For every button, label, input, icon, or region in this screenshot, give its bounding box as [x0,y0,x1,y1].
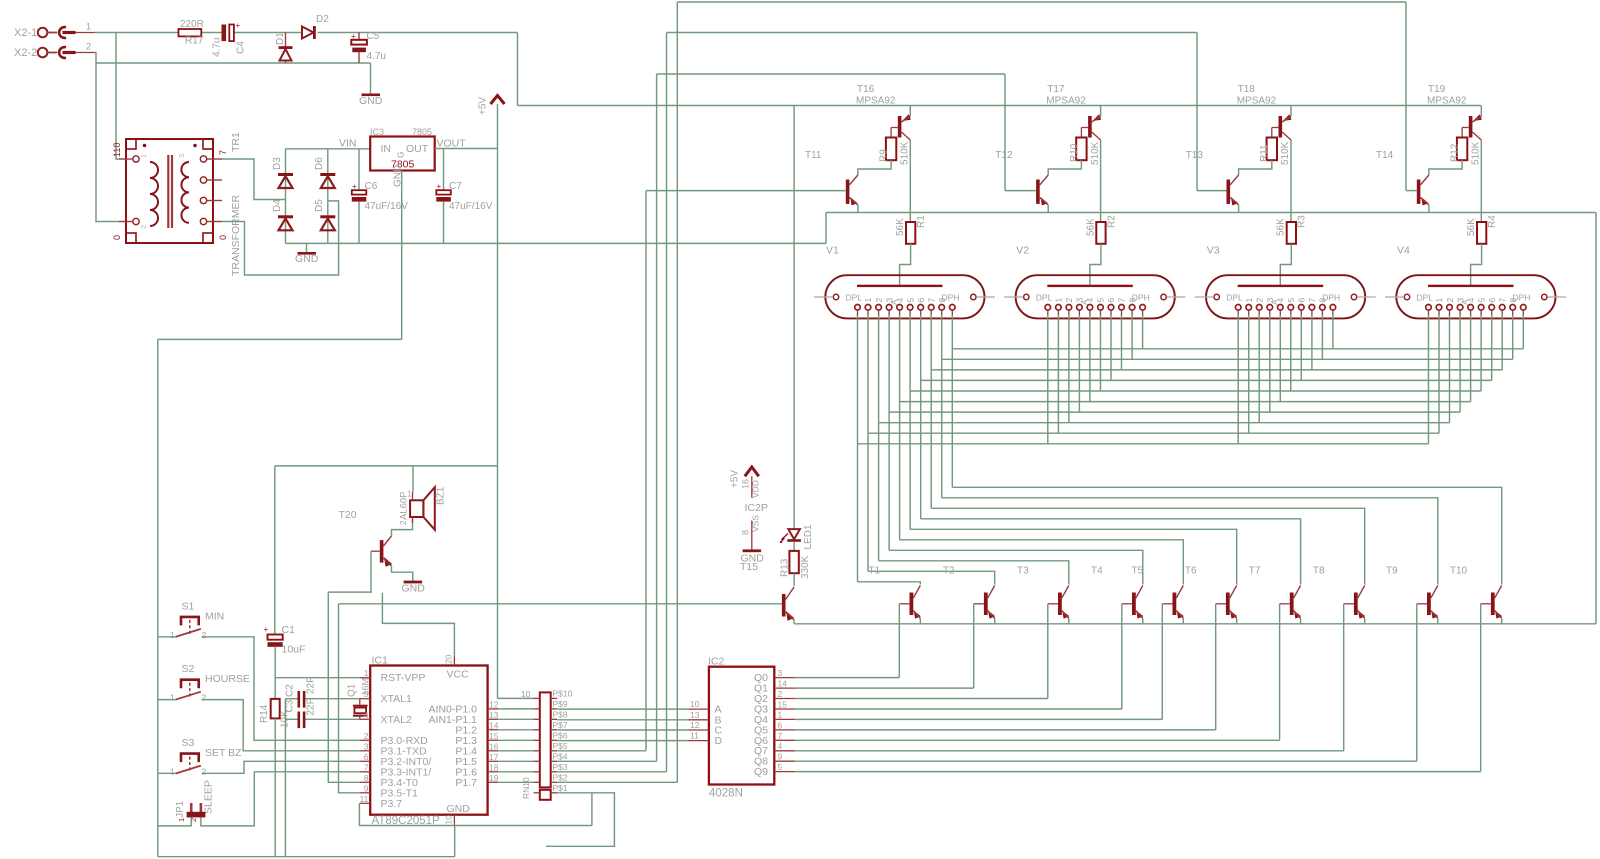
nixie V3 pin 0 stub [1237,310,1239,316]
wire V1 pin 1 column [867,315,869,571]
transistor T3 base bar [1058,593,1062,616]
jumper JP1 pin1 post [190,803,193,812]
resistor R14 [271,699,280,719]
wire C1 bottom to R14 [274,647,276,699]
crystal Q1 body [354,708,366,714]
svg-text:1: 1 [778,710,783,720]
wire cathode bus 5 [910,390,1481,392]
svg-text:2: 2 [139,225,148,229]
buzzer pin1 lead [412,492,414,500]
transistor T20 base bar [380,540,384,563]
transformer primary winding [150,162,158,226]
transformer right pin lead 0 [207,158,223,160]
wire cathode bus 8 [942,358,1513,360]
svg-text:D1: D1 [275,32,286,45]
svg-text:MPSA92: MPSA92 [1046,96,1086,107]
nixie V1 cathode pin 7 [928,305,934,311]
nixie tube V2 anode bar [1047,285,1133,287]
svg-text:1: 1 [177,818,186,822]
transistor T12 base bar [1036,180,1040,204]
nixie V4 right side pin [1542,294,1547,299]
svg-text:C4: C4 [236,41,247,54]
nixie V3 left side pin [1214,294,1219,299]
svg-text:1: 1 [1054,298,1064,303]
IC2 output Q5 stub [774,729,795,731]
transistor T9 emitter arrow [1431,611,1438,619]
svg-text:P$4: P$4 [553,751,568,761]
svg-text:MPSA92: MPSA92 [856,96,896,107]
diode D1 cathode bar [279,46,293,49]
wire T9 emitter to rail [1437,619,1439,624]
transistor T17 base bar [1088,116,1092,138]
nixie tube V2 envelope [1016,275,1175,318]
diode D1 anode stub [285,33,287,48]
svg-text:LED1: LED1 [803,524,814,549]
wire IC1 GND to P3.7 net [359,803,592,825]
wire S3 right route [202,761,360,773]
wire T4 emitter to rail [1142,619,1144,624]
svg-text:P$10: P$10 [553,688,573,698]
svg-text:Q1: Q1 [347,683,358,697]
transistor T10 emitter arrow [1495,611,1502,619]
svg-text:5: 5 [1096,298,1106,303]
IC2P VSS stem [751,521,753,550]
wire V2 pin 4 drop [1089,315,1091,402]
wire D2 to C5 node to corner [318,32,518,34]
svg-text:220R: 220R [180,19,204,30]
resistor network RN1 common box [540,790,551,800]
IC2 input C stub [688,729,709,731]
nixie V3 cathode pin 9 [1330,305,1336,311]
nixie V2 pin 5 stub [1100,310,1102,316]
capacitor C6 plate 1 [352,190,367,194]
svg-text:14: 14 [778,679,788,689]
capacitor C7 plate 1 [436,190,451,194]
svg-text:D6: D6 [314,157,325,170]
wire T16 emitter [909,106,911,117]
wire R4 to anode [1471,244,1482,286]
svg-text:R1: R1 [916,215,927,228]
buzzer pin2 lead [412,517,414,523]
wire T5 emitter to rail [1182,619,1184,624]
wire T14 base [1406,190,1417,192]
wire VCC route [382,593,454,656]
svg-text:SLEEP: SLEEP [203,780,215,814]
svg-text:C5: C5 [367,31,380,42]
svg-text:X2-2: X2-2 [14,47,37,59]
svg-text:P3.7: P3.7 [381,798,403,810]
diode D1 cathode stub [285,61,287,64]
svg-text:T17: T17 [1047,84,1065,95]
svg-text:2: 2 [399,520,408,525]
nixie V3 pin 5 stub [1290,310,1292,316]
wire X2-2 to transformer pin 2 [95,53,119,222]
wire P3.4 column [328,592,359,782]
svg-text:R2: R2 [1106,215,1117,228]
wire P1 row 14 to RN1 [498,729,533,731]
wire cathode bus 2 [879,422,1450,424]
wire bus top link to ground [158,338,402,340]
transistor T4 base lead [1122,603,1132,605]
wire RN1 to IC2 input C [557,729,688,731]
transistor T1 base bar [910,593,914,616]
IC1 pin 4 stub [360,718,371,720]
RN1 left stub row 1 [534,792,540,794]
svg-text:1: 1 [86,22,91,32]
nixie V1 right stub [976,296,995,298]
svg-text:15: 15 [778,700,788,710]
switch S2 bracket [181,680,199,689]
svg-text:510K: 510K [1280,141,1291,165]
svg-text:2: 2 [1254,298,1264,303]
nixie V2 pin 2 stub [1068,310,1070,316]
svg-text:T14: T14 [1376,150,1394,161]
transformer core line 2 [171,155,173,228]
IC1 pin 11 stub [360,802,371,804]
svg-text:XTAL1: XTAL1 [381,693,412,705]
IC2 input D stub [688,740,709,742]
transistor T4 collector diag [1136,586,1143,599]
wire cathode bus 4 [900,401,1471,403]
nixie V1 pin 8 stub [941,310,943,316]
transistor T20 emitter arrow [384,557,392,567]
svg-text:+5V: +5V [730,470,741,488]
nixie V4 cathode pin 3 [1457,305,1463,311]
svg-text:9: 9 [778,752,783,762]
svg-text:P$8: P$8 [553,709,568,719]
nixie V2 pin 4 stub [1089,310,1091,316]
svg-text:S3: S3 [182,737,195,749]
diode D6 triangle [321,176,335,188]
svg-text:T6: T6 [1185,566,1197,577]
buzzer BZ1 cone [423,487,434,530]
switch S3 bracket [181,754,199,763]
wire C7 bottom [443,202,445,244]
svg-text:BZ1: BZ1 [436,486,447,505]
connector X2-2 pin bar [63,51,76,54]
wire XTAL1 line [305,698,359,700]
nixie V2 pin 3 stub [1078,310,1080,316]
transistor T3 base lead [1048,603,1058,605]
svg-text:7: 7 [1307,298,1317,303]
transistor T17 emitter arrow [1092,114,1101,121]
transistor T8 collector diag [1358,586,1365,599]
wire RST line [275,677,360,679]
svg-text:5: 5 [905,298,915,303]
nixie V3 right side pin [1351,294,1356,299]
nixie V2 pin 7 stub [1121,310,1123,316]
svg-text:5: 5 [1286,298,1296,303]
transistor T2 emitter arrow [988,611,995,619]
nixie V1 left stub [814,296,833,298]
nixie V4 cathode pin 1 [1436,305,1442,311]
nixie V4 cathode pin 2 [1447,305,1453,311]
svg-text:13: 13 [489,710,499,720]
wire V2 pin 8 drop [1131,315,1133,359]
resistor network RN1 body [540,692,551,787]
wire T10 emitter to rail [1501,619,1503,624]
svg-text:GND: GND [447,803,471,815]
svg-text:1: 1 [139,154,148,158]
IC2P VDD +5V arrow [745,467,759,476]
nixie V1 cathode pin 9 [950,305,956,311]
wire T12 emitter to rail [1047,205,1049,213]
switch S2 lever [175,692,201,700]
svg-text:P$5: P$5 [553,741,568,751]
svg-text:IC2: IC2 [708,656,725,668]
transformer corner notch [203,233,213,243]
svg-text:A: A [1461,299,1470,305]
wire T19 base to resistor [1461,128,1463,138]
transformer pin 1 circle [133,156,139,162]
nixie V3 cathode pin 3 [1267,305,1273,311]
wire V3 pin 5 drop [1290,315,1292,391]
transistor T14 collector diag [1420,175,1429,185]
svg-text:330K: 330K [800,555,811,579]
wire R1 to anode [900,244,911,286]
wire V4 pin 0 drop [1428,315,1430,444]
nixie V2 pin 9 stub [1142,310,1144,316]
svg-text:56K: 56K [1085,218,1096,236]
svg-text:2: 2 [86,42,91,52]
nixie V2 left stub [1004,296,1023,298]
IC1 pin 3 stub [360,750,371,752]
wire bridge right leg [327,149,329,244]
wire V1 pin 0 column [857,315,859,582]
svg-text:4028N: 4028N [709,788,743,800]
wire V3 pin 1 drop [1248,315,1250,433]
svg-text:3: 3 [364,741,369,751]
wire T4 base drop [1121,604,1123,709]
IC2 input A stub [688,708,709,710]
svg-text:1: 1 [170,693,175,703]
nixie V2 right side pin [1161,294,1166,299]
wire +5V column down [497,149,499,699]
wire RN1 P$5 to T11 column [557,750,646,752]
wire rail jog to ground [825,213,827,244]
wire cathode bus 0 [858,443,1429,445]
wire T17 base to resistor [1080,128,1082,138]
svg-text:10: 10 [444,815,454,825]
diode D3 cathode bar [278,173,293,176]
wire T20 emitter to GND [392,566,413,581]
svg-text:OUT: OUT [406,143,429,155]
wire R2 to anode [1090,244,1101,286]
transistor T5 emitter diag [1176,611,1183,619]
svg-text:A: A [1080,299,1089,305]
nixie V3 cathode pin 5 [1288,305,1294,311]
svg-text:2: 2 [874,298,884,303]
svg-text:16: 16 [741,479,751,489]
wire Q6 line [795,739,1280,741]
wire V2 pin 2 drop [1068,315,1070,423]
wire T8 collector line [931,508,1364,584]
svg-text:RN10: RN10 [521,777,531,799]
nixie V4 right stub [1547,296,1566,298]
wire RN1 to IC2 input A [557,708,688,710]
wire Q7 line [795,750,1344,752]
nixie V4 pin 9 stub [1522,310,1524,316]
wire Q4 line [795,718,1162,720]
wire JP1 pin1 to bus [158,817,191,826]
svg-text:R10: R10 [1069,143,1080,162]
transistor T10 base lead [1481,603,1491,605]
microcontroller IC1 body [370,666,487,815]
IC1 pin 14 stub [488,729,499,731]
svg-text:0: 0 [112,235,122,240]
svg-text:7: 7 [1497,298,1507,303]
wire C6 bottom [358,202,360,244]
transistor T15 emitter arrow [786,611,794,621]
nixie V1 pin 9 stub [951,310,953,316]
wire T7 collector line [921,519,1301,585]
wire T18 collector down to R [1290,140,1292,222]
nixie V4 left stub [1385,296,1404,298]
IC2P VDD stem [751,476,753,498]
RN1 left stub row 4 [534,760,540,762]
nixie V2 cathode pin 5 [1098,305,1104,311]
svg-text:22P: 22P [306,676,317,694]
nixie tube V3 envelope [1206,275,1365,318]
wire S2 left [158,699,176,701]
transistor T15 collector diag [786,587,795,600]
IC2 output Q2 stub [774,698,795,700]
diode D6 cathode bar [320,173,335,176]
nixie V1 right side pin [971,294,976,299]
wire VIN rail [286,148,371,150]
wire P1 row 17 to RN1 [498,760,533,762]
transistor T10 emitter diag [1495,611,1502,619]
diode D3 triangle [279,176,293,188]
svg-text:T16: T16 [857,84,875,95]
nixie V2 cathode pin 1 [1056,305,1062,311]
nixie V1 pin 4 stub [899,310,901,316]
wire anode emitter rail [826,212,1596,214]
nixie V2 cathode pin 4 [1087,305,1093,311]
transistor T14 emitter diag [1420,198,1429,206]
svg-text:VCC: VCC [447,669,470,681]
IC2 output Q7 stub [774,750,795,752]
svg-text:C3: C3 [285,699,296,712]
nixie V2 cathode pin 0 [1045,305,1051,311]
wire T6 collector line [910,529,1237,584]
nixie V2 cathode pin 2 [1066,305,1072,311]
svg-text:R3: R3 [1297,215,1308,228]
wire T14 base net column [676,2,678,782]
wire raw supply corner down [517,33,519,106]
svg-text:7805: 7805 [412,127,432,137]
wire cathode bus 1 [868,432,1439,434]
transformer right pin lead 3 [207,221,223,223]
ground symbol bar (IC2P) [743,549,762,552]
capacitor C5 bottom stub [358,52,360,63]
wire V3 pin 4 drop [1279,315,1281,402]
svg-text:DPL: DPL [1036,293,1053,303]
wire T2 collector line [868,571,995,584]
svg-text:+5V: +5V [478,97,489,115]
nixie V1 pin 0 stub [857,310,859,316]
wire GND stem (C5) [370,63,372,94]
RN1 right stub row 10 [551,697,558,699]
wire Q0 line [795,677,899,679]
transistor T17 emitter diag [1092,117,1101,123]
wire V1 pin 9 column [951,315,953,487]
wire Q1 line [795,687,974,689]
transformer TR1 body [126,139,213,243]
svg-text:T5: T5 [1132,566,1144,577]
wire P1 row 19 to RN1 [498,781,533,783]
svg-text:C1: C1 [282,624,296,636]
RN1 right stub row 8 [551,718,558,720]
nixie V1 pin 3 stub [888,310,890,316]
wire T2 base drop [973,604,975,688]
nixie tube V4 anode bar [1428,285,1514,287]
transistor T1 emitter diag [913,611,920,619]
svg-text:4: 4 [364,710,369,720]
wire R17 to C4 [201,32,221,34]
nixie V1 pin 2 stub [878,310,880,316]
nixie V3 pin 8 stub [1321,310,1323,316]
IC1 pin 1 stub [360,677,371,679]
wire V1 pin 5 column [909,315,911,529]
svg-text:IN: IN [381,143,392,155]
wire RN1 P$4 to T12 column [557,760,656,762]
nixie V1 cathode pin 0 [855,305,861,311]
wire T2 emitter to rail [994,619,996,624]
wire T14 base net drop right [1405,2,1407,191]
transistor T14 base bar [1417,180,1421,204]
connector X2-2 link [47,52,57,54]
svg-text:56K: 56K [1466,218,1477,236]
svg-text:2: 2 [1445,298,1455,303]
ground symbol bar (bridge) [298,252,317,255]
nixie V4 pin 5 stub [1480,310,1482,316]
wire T19 collector down to R [1480,140,1482,222]
wire T13 base net top [667,32,1198,34]
nixie V4 pin 2 stub [1449,310,1451,316]
svg-text:2: 2 [189,818,198,822]
svg-text:3: 3 [177,154,186,158]
nixie V3 pin 6 stub [1300,310,1302,316]
svg-text:2: 2 [364,731,369,741]
nixie tube V1 anode bar [857,285,943,287]
transistor T2 base bar [984,593,988,616]
wire V3 pin 9 drop [1332,315,1334,349]
wire V1 pin 8 column [941,315,943,498]
nixie V4 pin 8 stub [1512,310,1514,316]
wire C3 left to gnd col [285,718,297,720]
wire T12 base [1005,190,1036,192]
ground symbol bar (T20) [404,581,423,584]
nixie V1 pin 7 stub [930,310,932,316]
wire V2 pin 5 drop [1100,315,1102,391]
connector X2-2 pad circle [38,48,48,58]
IC2 output Q9 stub [774,771,795,773]
wire V4 pin 2 drop [1449,315,1451,423]
wire T20 base route [328,551,371,592]
wire T12 base net top [657,73,1005,75]
wire V4 pin 1 drop [1438,315,1440,433]
transistor T6 emitter diag [1230,611,1237,619]
nixie V4 cathode pin 6 [1489,305,1495,311]
transistor T2 base lead [974,603,984,605]
connector X2-1 link [47,32,57,34]
wire T17 emitter [1100,106,1102,117]
wire T13 emitter to rail [1238,205,1240,213]
connector X2-2 pin lead [76,52,96,54]
wire P$1 gnd tap [591,793,593,826]
svg-text:T13: T13 [1186,150,1204,161]
